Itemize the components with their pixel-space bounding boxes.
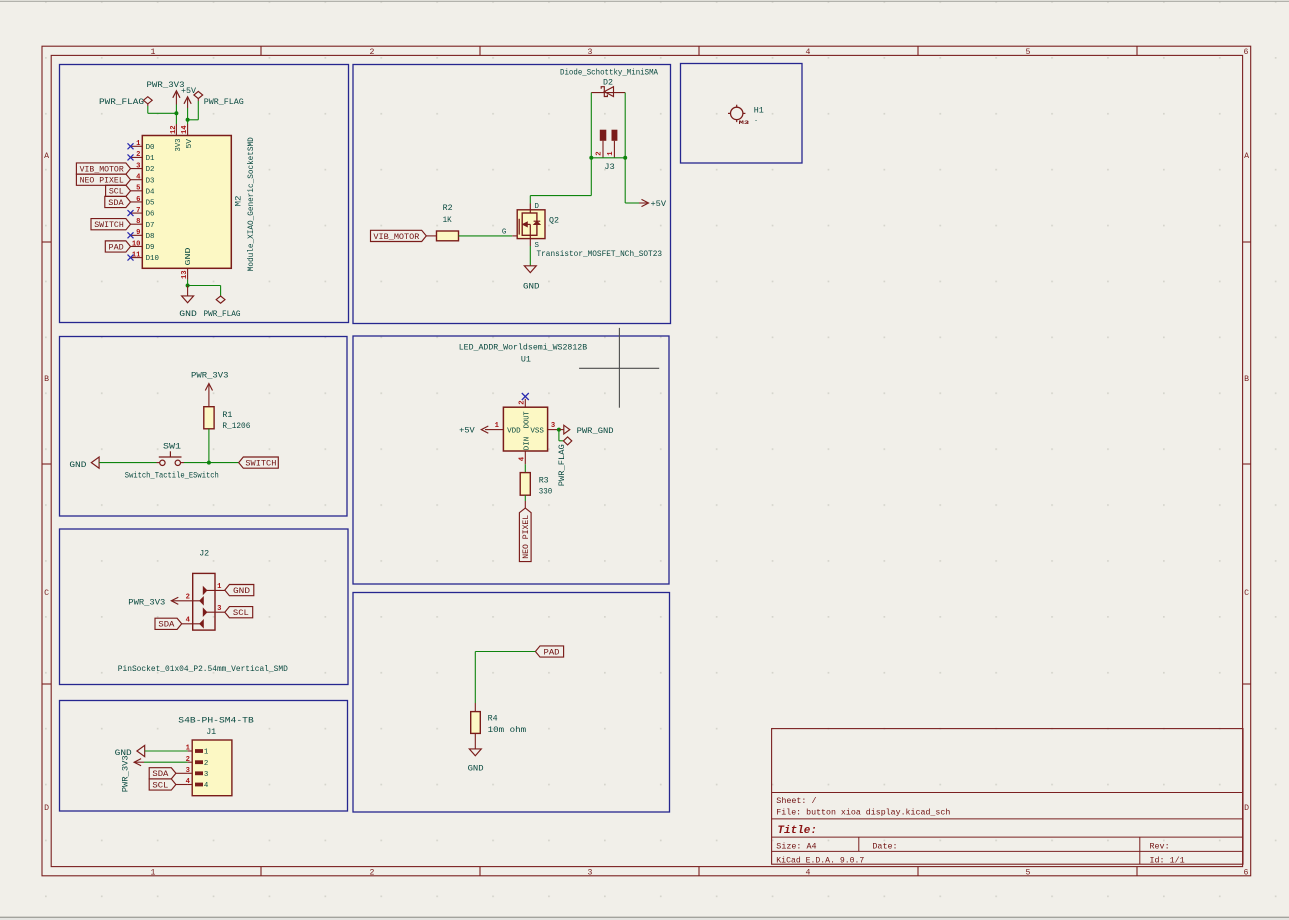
svg-text:PWR_3V3: PWR_3V3	[147, 80, 185, 90]
svg-text:3: 3	[136, 162, 140, 170]
svg-text:SW1: SW1	[163, 441, 181, 451]
svg-text:A: A	[1244, 152, 1249, 161]
reference M2 text	[234, 196, 244, 207]
svg-text:+5V: +5V	[459, 426, 475, 436]
svg-text:PWR_3V3: PWR_3V3	[191, 370, 229, 380]
box A1 xiao module	[60, 65, 349, 323]
power symbol PWR_3V3 J1 arrow	[134, 759, 144, 766]
svg-text:2: 2	[204, 760, 208, 768]
resistor R1	[204, 407, 214, 429]
hier label SDA	[105, 196, 131, 208]
connector J2 pin 2	[175, 594, 204, 605]
svg-text:R3: R3	[539, 475, 549, 485]
svg-text:1: 1	[495, 422, 500, 430]
power flag PWR_FLAG right	[194, 91, 203, 101]
svg-text:+5V: +5V	[181, 86, 196, 96]
svg-text:KiCad E.D.A. 9.0.7: KiCad E.D.A. 9.0.7	[776, 855, 864, 865]
svg-text:3V3: 3V3	[175, 139, 183, 152]
transistor Q2 body	[517, 210, 545, 239]
svg-text:SWITCH: SWITCH	[245, 460, 276, 469]
hier label PAD	[105, 241, 130, 253]
svg-text:1: 1	[204, 749, 209, 757]
svg-text:PAD: PAD	[109, 243, 124, 252]
no-connect X pin 7	[128, 210, 134, 216]
svg-text:9: 9	[136, 229, 140, 237]
svg-text:PWR_FLAG: PWR_FLAG	[99, 97, 144, 107]
svg-text:D3: D3	[146, 177, 155, 185]
wire pwr_flag-left to 3V3 net	[148, 105, 177, 125]
connector J1 pin 4	[186, 778, 209, 790]
diode D2	[591, 87, 625, 97]
svg-text:D9: D9	[146, 244, 155, 252]
pin 11 D10	[131, 251, 159, 263]
wire label to R2	[426, 235, 436, 237]
wire J3 bottom bus	[591, 157, 625, 159]
svg-text:PWR_FLAG: PWR_FLAG	[204, 309, 241, 319]
svg-text:4: 4	[136, 173, 141, 181]
svg-text:1: 1	[607, 151, 615, 156]
svg-text:D5: D5	[146, 200, 155, 208]
svg-text:Title:: Title:	[777, 825, 817, 837]
wire diode right leg	[624, 93, 626, 158]
svg-text:PWR_FLAG: PWR_FLAG	[204, 97, 244, 107]
svg-text:3: 3	[588, 48, 593, 57]
junction 3V3	[174, 111, 178, 115]
connector J3 pads	[600, 130, 618, 141]
power flag PWR_FLAG left	[143, 97, 152, 106]
junction J3 right	[623, 156, 627, 160]
pin 14 5V	[181, 124, 194, 149]
pin 4 DIN bottom	[519, 437, 532, 464]
svg-text:R_1206: R_1206	[222, 421, 250, 431]
switch SW1	[157, 451, 185, 465]
connector J2 pin 3	[203, 605, 225, 616]
svg-text:GND: GND	[523, 281, 540, 291]
svg-text:2: 2	[186, 594, 190, 602]
junction 5V	[186, 118, 190, 122]
connector J1 pin 2	[186, 756, 209, 768]
svg-text:B: B	[1244, 375, 1249, 384]
ground symbol GND Q2	[524, 266, 536, 273]
connector J3 pin 2 lead	[596, 141, 604, 158]
svg-text:Sheet: /: Sheet: /	[776, 796, 816, 806]
title block border	[772, 729, 1243, 865]
wire pad to R4	[475, 652, 535, 712]
svg-text:S4B-PH-SM4-TB: S4B-PH-SM4-TB	[178, 715, 254, 725]
svg-text:4: 4	[186, 617, 191, 625]
svg-text:A: A	[44, 152, 49, 161]
svg-text:D4: D4	[146, 188, 155, 196]
junction pin3	[557, 428, 561, 432]
svg-text:J2: J2	[199, 549, 209, 559]
hier label SCL J1	[149, 779, 176, 791]
svg-text:H1: H1	[754, 105, 764, 115]
svg-text:D2: D2	[146, 166, 155, 174]
power symbol PWR_3V3 top	[173, 91, 180, 105]
svg-text:6: 6	[1244, 869, 1249, 878]
svg-text:Size: A4: Size: A4	[776, 841, 816, 851]
led U1 body	[503, 407, 547, 451]
power symbol PWR_3V3 B1	[205, 384, 212, 407]
pin 5 D4	[131, 185, 156, 197]
svg-text:U1: U1	[521, 355, 531, 365]
svg-text:SWITCH: SWITCH	[94, 221, 124, 230]
svg-text:5: 5	[1026, 48, 1031, 57]
resistor R2	[437, 231, 459, 241]
svg-text:J3: J3	[604, 162, 615, 172]
pin 7 D6	[131, 207, 155, 219]
hier label SCL	[106, 185, 131, 197]
pin 9 D8	[131, 229, 155, 241]
svg-text:Date:: Date:	[872, 841, 897, 851]
svg-text:GND: GND	[69, 460, 86, 470]
svg-text:NEO PIXEL: NEO PIXEL	[80, 177, 124, 186]
junction switch node	[207, 461, 211, 465]
power symbol +5V right	[639, 199, 649, 206]
svg-text:4: 4	[806, 869, 811, 878]
svg-text:VIB_MOTOR: VIB_MOTOR	[373, 233, 419, 242]
wire diode left leg	[590, 93, 592, 158]
hier label NEO PIXEL	[76, 174, 130, 186]
pin 3 VSS right	[530, 422, 559, 436]
hier label GND J2	[225, 585, 254, 597]
box A2 motor driver	[353, 65, 671, 324]
svg-text:4: 4	[204, 782, 209, 790]
svg-text:GND: GND	[233, 587, 250, 596]
window top edge	[0, 0, 1289, 2]
svg-text:D2: D2	[603, 77, 613, 87]
svg-text:Transistor_MOSFET_NCh_SOT23: Transistor_MOSFET_NCh_SOT23	[537, 249, 663, 259]
label PWR_3V3 J1 vertical text	[122, 755, 131, 792]
svg-text:NEO PIXEL: NEO PIXEL	[522, 515, 531, 559]
value MountingHole text	[739, 117, 758, 126]
svg-text:R2: R2	[443, 203, 453, 213]
svg-text:PWR_3V3: PWR_3V3	[122, 755, 131, 792]
svg-text:3: 3	[204, 771, 208, 779]
svg-text:GND: GND	[179, 309, 197, 319]
svg-text:DOUT: DOUT	[524, 411, 532, 429]
svg-text:VDD: VDD	[507, 428, 521, 436]
wire R2 to gate	[459, 235, 513, 237]
svg-text:7: 7	[136, 207, 140, 215]
svg-text:6: 6	[1244, 48, 1249, 57]
svg-text:1: 1	[136, 140, 141, 148]
wire to drain	[530, 158, 591, 204]
svg-text:SCL: SCL	[109, 188, 124, 197]
svg-text:PWR_3V3: PWR_3V3	[128, 598, 165, 608]
svg-text:Rev:: Rev:	[1150, 841, 1170, 851]
svg-text:1: 1	[151, 48, 156, 57]
wire source to gnd	[529, 239, 531, 266]
svg-text:13: 13	[181, 270, 189, 279]
connector J2 pin 4	[182, 617, 204, 628]
svg-text:File: button xioa display.kica: File: button xioa display.kicad_sch	[776, 808, 950, 818]
pin 2 DOUT top	[519, 399, 532, 428]
svg-text:-: -	[754, 117, 758, 124]
svg-text:2: 2	[519, 400, 527, 404]
pin 8 D7	[131, 218, 155, 230]
svg-text:Q2: Q2	[549, 215, 559, 225]
svg-text:1: 1	[151, 869, 156, 878]
svg-text:8: 8	[136, 218, 140, 226]
svg-text:4: 4	[806, 48, 811, 57]
mounting hole H1	[728, 105, 745, 122]
svg-text:5: 5	[1026, 869, 1031, 878]
svg-text:D: D	[535, 203, 540, 211]
svg-text:2: 2	[136, 151, 140, 159]
svg-text:M2: M2	[234, 196, 244, 207]
svg-text:B: B	[44, 375, 49, 384]
pin 10 D9	[131, 240, 155, 252]
svg-text:10: 10	[132, 240, 141, 248]
svg-text:SCL: SCL	[152, 781, 168, 790]
svg-text:1K: 1K	[443, 215, 453, 225]
svg-text:D: D	[1244, 804, 1249, 813]
svg-text:SDA: SDA	[108, 199, 123, 208]
svg-text:PinSocket_01x04_P2.54mm_Vertic: PinSocket_01x04_P2.54mm_Vertical_SMD	[118, 664, 288, 674]
hier label NEO_PIXEL vertical	[519, 508, 531, 561]
svg-text:R4: R4	[488, 714, 498, 724]
svg-text:PAD: PAD	[544, 648, 560, 657]
pin 6 D5	[131, 196, 155, 208]
svg-text:5: 5	[136, 185, 140, 193]
svg-text:C: C	[44, 589, 49, 598]
svg-text:Switch_Tactile_ESwitch: Switch_Tactile_ESwitch	[125, 471, 219, 481]
ground symbol GND J1	[137, 745, 145, 756]
svg-text:5V: 5V	[186, 138, 194, 148]
pin 2 D1	[131, 151, 156, 163]
svg-text:Module_XIAO_Generic_SocketSMD: Module_XIAO_Generic_SocketSMD	[247, 137, 256, 271]
svg-text:D: D	[44, 804, 49, 813]
svg-text:SDA: SDA	[152, 770, 168, 779]
hier label SDA J2	[155, 618, 182, 630]
svg-text:VIB_MOTOR: VIB_MOTOR	[80, 165, 124, 174]
svg-text:J1: J1	[206, 727, 216, 737]
svg-text:M3: M3	[739, 119, 750, 126]
hier label VIB_MOTOR	[76, 163, 130, 175]
title block row lines	[772, 793, 1243, 865]
resistor R3	[520, 473, 530, 496]
svg-text:4: 4	[519, 456, 527, 461]
svg-text:D8: D8	[146, 233, 155, 241]
svg-text:Id: 1/1: Id: 1/1	[1150, 855, 1185, 865]
svg-text:3: 3	[551, 422, 555, 430]
wire scl J1	[176, 784, 188, 786]
box B2 neopixel	[353, 336, 669, 584]
wire gnd to switch	[99, 462, 156, 464]
wire gnd J1	[145, 750, 188, 752]
svg-text:D0: D0	[146, 144, 155, 152]
box D1 battery connector	[60, 701, 348, 812]
no-connect X pin 1	[128, 143, 134, 149]
connector J2 pin 1	[203, 583, 225, 595]
svg-text:D7: D7	[146, 222, 155, 230]
wire switch to label	[184, 462, 239, 464]
wire gnd net bottom	[188, 280, 221, 296]
no-connect X pin 2	[522, 393, 529, 400]
label PWR_FLAG vertical text B2	[558, 444, 567, 486]
svg-text:D10: D10	[146, 255, 159, 263]
svg-text:2: 2	[596, 151, 604, 155]
connector J2 body	[193, 573, 215, 630]
svg-text:+5V: +5V	[651, 199, 667, 209]
cursor crosshair	[579, 328, 659, 408]
power flag PWR_FLAG bottom	[216, 296, 225, 303]
power flag PWR_FLAG B2	[563, 437, 571, 445]
box A3 mounting hole	[681, 64, 803, 164]
connector J3 pin 1 lead	[607, 141, 615, 158]
svg-text:PWR_GND: PWR_GND	[577, 426, 614, 436]
svg-text:G: G	[502, 229, 506, 237]
ground symbol GND D2box	[469, 749, 481, 756]
connector J1 pin 1	[186, 745, 209, 757]
wire R4 to gnd	[474, 733, 476, 749]
hier label SWITCH	[91, 219, 131, 231]
svg-text:DIN: DIN	[524, 437, 532, 451]
pin 12 3V3	[170, 124, 183, 152]
svg-text:SCL: SCL	[233, 609, 249, 618]
wire to pwr_flag B2	[559, 430, 564, 441]
svg-text:PWR_FLAG: PWR_FLAG	[558, 444, 567, 486]
hier label SWITCH B1	[239, 457, 279, 469]
wire pwr_flag-right to 5V net	[188, 101, 199, 124]
svg-text:1: 1	[217, 583, 222, 591]
svg-text:C: C	[1244, 589, 1249, 598]
hier label VIB_MOTOR 2	[371, 230, 427, 242]
wire R3 to label	[524, 495, 526, 508]
box B1 switch	[60, 337, 348, 517]
pin 4 D3	[131, 173, 155, 185]
svg-text:GND: GND	[468, 763, 484, 773]
connector J1 body	[192, 740, 232, 796]
pin 1 VDD left	[495, 422, 522, 436]
power symbol PWR_GND	[559, 425, 570, 434]
pin 3 D2	[131, 162, 155, 174]
junction gnd	[186, 284, 190, 288]
power symbol +5V top	[184, 97, 191, 108]
ground symbol GND left B1	[91, 457, 99, 468]
svg-text:VSS: VSS	[530, 428, 544, 436]
wire sda J1	[176, 772, 188, 774]
wire R1 to switch node	[208, 429, 210, 463]
wire to +5V	[625, 158, 639, 203]
hier label PAD D2box	[535, 646, 563, 658]
svg-text:D1: D1	[146, 155, 155, 163]
transistor Q2 internals	[519, 204, 540, 239]
svg-text:14: 14	[181, 125, 189, 134]
svg-text:330: 330	[539, 487, 553, 497]
svg-text:6: 6	[136, 196, 140, 204]
svg-text:Diode_Schottky_MiniSMA: Diode_Schottky_MiniSMA	[560, 67, 659, 77]
power symbol PWR_3V3 J2 arrow	[171, 597, 178, 604]
hier label SCL J2	[225, 607, 253, 619]
wire pin4 to R3	[524, 464, 526, 472]
svg-text:R1: R1	[222, 410, 232, 420]
pin 1 D0	[131, 140, 155, 152]
window bottom edge	[0, 916, 1289, 918]
no-connect X pin 9	[128, 232, 134, 238]
svg-text:12: 12	[170, 125, 178, 134]
pin G lead	[512, 235, 518, 237]
svg-text:3: 3	[588, 869, 593, 878]
svg-text:2: 2	[370, 869, 375, 878]
box C1 pin socket	[60, 529, 349, 685]
hier label SDA J1	[149, 768, 176, 780]
power symbol +5V left arrow	[481, 426, 495, 433]
module M2 body	[142, 136, 231, 269]
pin 13 GND bottom	[181, 247, 193, 280]
svg-text:SDA: SDA	[158, 621, 174, 630]
box D2 pad resistor	[353, 593, 670, 813]
junction J3 left	[589, 156, 593, 160]
value Module_XIAO_Generic_SocketSMD text	[247, 137, 256, 271]
resistor R4	[471, 712, 481, 734]
svg-text:D6: D6	[146, 211, 155, 219]
svg-text:10m ohm: 10m ohm	[488, 725, 526, 735]
svg-text:2: 2	[370, 48, 375, 57]
no-connect X pin 11	[128, 255, 134, 261]
no-connect X pin 2	[128, 154, 134, 160]
svg-text:3: 3	[217, 605, 221, 613]
wire 3v3 J1	[144, 761, 188, 763]
ground symbol GND	[182, 286, 194, 303]
svg-text:GND: GND	[185, 247, 193, 266]
connector J1 pin 3	[186, 767, 209, 779]
svg-text:LED_ADDR_Worldsemi_WS2812B: LED_ADDR_Worldsemi_WS2812B	[459, 343, 588, 353]
